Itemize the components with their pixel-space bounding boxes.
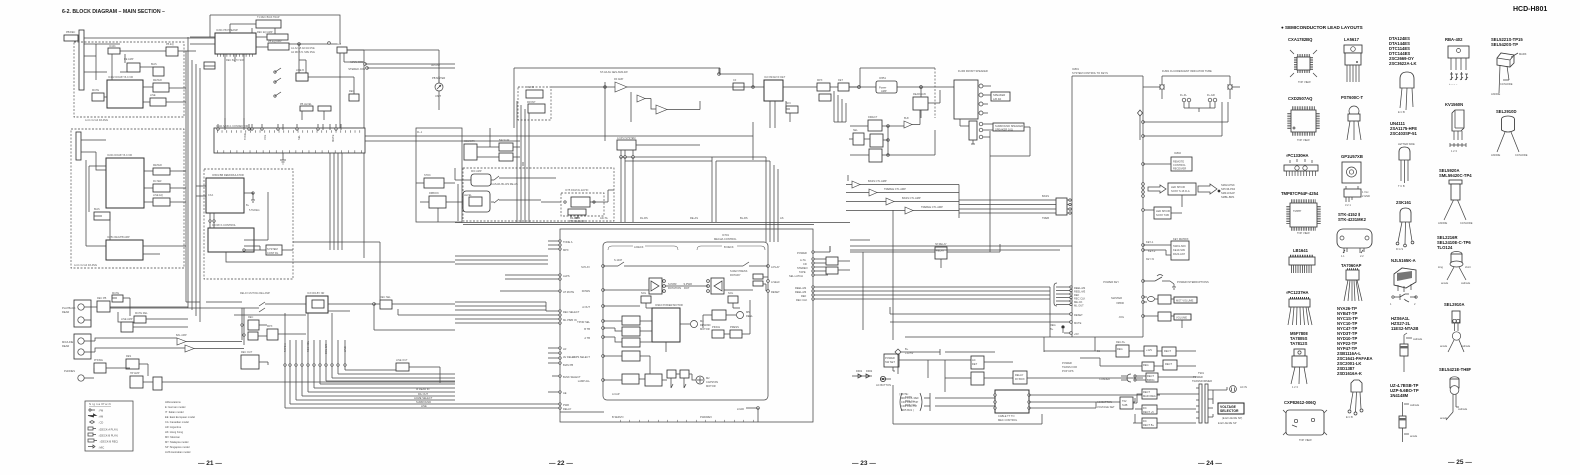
transformer bars (1199, 384, 1202, 423)
svg-text:SONY TAB: SONY TAB (1156, 213, 1169, 217)
svg-text:T C B: T C B (1398, 184, 1405, 188)
sub box 2 (429, 196, 446, 208)
svg-text:DC: DC (1143, 419, 1147, 423)
vertical bus center-left pair (206, 256, 548, 302)
phone amp box (94, 363, 106, 373)
svg-text:IC102 DOLBY B-C NR: IC102 DOLBY B-C NR (108, 76, 133, 79)
IC dolby NR processor deck B (106, 158, 144, 208)
svg-text:: AM: : AM (98, 415, 103, 419)
svg-text:LB1641: LB1641 (1293, 248, 1309, 253)
IC TMP87CP64F QFP package (1288, 201, 1319, 235)
wires fl tube (1143, 87, 1240, 112)
IC uPC1237HA SIP package (1288, 298, 1312, 325)
pins main ctl right (1028, 394, 1030, 396)
svg-text:BIAS: BIAS (151, 63, 157, 66)
svg-text:AC IN: AC IN (1240, 385, 1247, 389)
tape out lines into mech board (455, 302, 546, 323)
det box 2 (819, 94, 831, 101)
motor volume node 1 (1142, 296, 1145, 299)
svg-text:REWIND: REWIND (700, 323, 711, 327)
motor oval (1148, 297, 1155, 302)
led SEL2910A package (1440, 311, 1471, 352)
rec pb amp box (97, 301, 110, 312)
fl grid 2 (1208, 98, 1212, 102)
wires deck B internal (81, 140, 186, 254)
svg-text:RECT: RECT (1165, 362, 1172, 366)
ceramic filter box (733, 83, 744, 90)
svg-text:B+: B+ (905, 347, 909, 351)
svg-text:BUF: BUF (904, 117, 909, 120)
diamond b+ (895, 349, 901, 355)
jack circle phones (78, 375, 84, 381)
node cpu 1 (620, 156, 623, 159)
key matrix box (1171, 241, 1189, 260)
svg-text:ME-CK: ME-CK (1074, 300, 1083, 304)
led arrow left (1148, 185, 1166, 193)
mixer node bus (242, 308, 244, 345)
wires cd section (196, 186, 293, 262)
svg-text:— 22 —: — 22 — (549, 460, 573, 467)
legend row deck b rec (88, 439, 94, 442)
svg-text:A-C1 C2 A4 RA RVE: A-C1 C2 A4 RA RVE (85, 119, 108, 122)
svg-text:ALPS: ALPS (563, 274, 570, 278)
svg-text:A-B: A-B (337, 43, 342, 46)
bias box deck B (94, 212, 110, 220)
svg-text:— 25 —: — 25 — (1448, 459, 1472, 466)
echo dashed box (561, 193, 604, 216)
surround speaker strip (969, 121, 977, 140)
svg-text:LINE B: LINE B (296, 69, 304, 72)
node row line out (284, 364, 286, 366)
node tuner b (718, 73, 721, 76)
sub box 1 (424, 178, 444, 188)
pb eq box (166, 47, 178, 56)
fl tube heater right (1228, 85, 1232, 89)
node echo out (593, 201, 595, 203)
svg-text:MEC CONTROL: MEC CONTROL (998, 418, 1018, 422)
key nodes (1142, 244, 1145, 247)
boxes mid power (1116, 345, 1129, 357)
pb level box L (300, 106, 313, 111)
wires rect col (1133, 394, 1196, 423)
node remote (1142, 163, 1145, 166)
svg-text:TA7060AP: TA7060AP (1341, 263, 1362, 268)
wires lineout descending (259, 362, 560, 408)
node J1 (298, 43, 301, 46)
svg-text:LETTER SIDE: LETTER SIDE (1398, 142, 1415, 146)
led display group nodes (1142, 183, 1145, 186)
svg-text:RY-BOX: RY-BOX (1015, 377, 1025, 381)
IC TO220 regulator package (1291, 349, 1307, 389)
svg-text:RECT +5: RECT +5 (1143, 410, 1154, 414)
svg-text:IC501 BB DEMODULATOR: IC501 BB DEMODULATOR (212, 173, 244, 177)
dashed outline CD board (204, 169, 293, 279)
backup box 2 (499, 153, 513, 161)
svg-text:REC OUT: REC OUT (241, 351, 253, 354)
svg-text:to REAR IN: to REAR IN (416, 387, 430, 391)
svg-text:TA7812S: TA7812S (1290, 341, 1308, 346)
stereo jog node (366, 67, 369, 70)
svg-text:MECHA CONTROL: MECHA CONTROL (714, 237, 737, 241)
pinch roller boxes (712, 330, 724, 338)
bass treble amp triangle 3 (886, 198, 894, 205)
deck right pin A PLAY (767, 265, 770, 268)
IC dolby NR processor deck A (107, 80, 143, 108)
tone sel box (853, 133, 864, 145)
svg-text:RELAY: RELAY (936, 249, 945, 253)
wires servo2 (890, 307, 1070, 333)
node cpu 2 (624, 156, 627, 159)
rec cal box (296, 73, 308, 81)
svg-text:6-2. BLOCK DIAGRAM – MAIN SE: 6-2. BLOCK DIAGRAM – MAIN SECTION – (62, 9, 165, 15)
svg-text:S-TA AS-RL BL-RS RE-AS: S-TA AS-RL BL-RS RE-AS (487, 182, 518, 186)
IC STK power package (1337, 229, 1372, 258)
svg-text:KEY MATRIX: KEY MATRIX (1173, 237, 1189, 241)
svg-text:A CAP: A CAP (612, 392, 620, 396)
svg-text:anode: anode (1440, 416, 1448, 420)
svg-text:T901: T901 (1198, 371, 1204, 375)
fl grid 1 (1182, 98, 1186, 102)
svg-text:T1 REC BIAS TRAP: T1 REC BIAS TRAP (257, 16, 280, 19)
svg-text:cathode: cathode (1461, 344, 1471, 348)
long horizontal bus pair under mic section (455, 223, 850, 225)
svg-text:TONE A: TONE A (563, 240, 573, 244)
svg-text:CATHODE: CATHODE (1515, 153, 1528, 157)
svg-text:CATHODE: CATHODE (1500, 82, 1513, 86)
rect box brace (1146, 373, 1158, 382)
power amp rounded box (876, 81, 897, 93)
IC GP1U57XB module package (1342, 162, 1370, 207)
wire b+ (898, 349, 995, 374)
svg-text:CXA: CXA (208, 194, 213, 197)
svg-text:cathode: cathode (1458, 407, 1468, 411)
svg-text:cathode: cathode (1410, 403, 1420, 407)
svg-text:2SC3622A-LK: 2SC3622A-LK (1389, 61, 1416, 66)
svg-text:MUTE: MUTE (331, 134, 335, 142)
reel motor circle A (691, 321, 698, 328)
svg-text:VOL: VOL (263, 134, 267, 140)
svg-text:FILTER: FILTER (153, 180, 162, 183)
svg-text:IC75 DIGITAL ECHO: IC75 DIGITAL ECHO (565, 189, 588, 192)
remote control receiver box (1171, 157, 1192, 171)
bass treble amp triangle 2 (869, 189, 877, 196)
svg-text:AR :Argentine: AR :Argentine (165, 425, 182, 429)
svg-text:PROCESSOR: PROCESSOR (569, 220, 585, 223)
bridge RBA-402 package (1448, 46, 1469, 86)
svg-text:5.5VREG: 5.5VREG (249, 209, 260, 212)
svg-text:POWER: POWER (1193, 375, 1203, 379)
head connector strip deck B (76, 132, 81, 160)
svg-text:SELECTOR: SELECTOR (1220, 409, 1239, 413)
node cd out1 (209, 220, 211, 222)
dashed board outline deck B (71, 129, 184, 268)
echo delay IC box (571, 197, 590, 207)
curly brace power (1127, 374, 1131, 382)
svg-text:LR: LR (563, 347, 566, 351)
svg-text:REAR: REAR (62, 310, 69, 314)
wires row2 (1080, 358, 1196, 366)
svg-text:REF: REF (801, 294, 807, 298)
svg-text:2.2: 2.2 (1360, 254, 1364, 258)
reverse rotary boxes (753, 274, 763, 279)
rect boxes column bottom (1142, 389, 1157, 399)
svg-text:REEL-M3: REEL-M3 (1074, 290, 1086, 294)
node vol out (858, 86, 861, 89)
svg-text:LAMP ALL: LAMP ALL (578, 379, 591, 383)
phase box 1 (667, 370, 676, 378)
svg-text:NOTE: NOTE (905, 395, 912, 399)
svg-text:STDC: STDC (424, 174, 431, 177)
svg-text:anode: anode (1410, 434, 1418, 438)
tuner output vertical bundle (517, 101, 529, 222)
trans sub box (1120, 397, 1133, 409)
svg-text:STK-4231MK2: STK-4231MK2 (1338, 217, 1367, 222)
svg-text:LINE: LINE (150, 94, 156, 97)
svg-text:PST600C-T: PST600C-T (1341, 95, 1364, 100)
stub wires into left pins (500, 241, 559, 392)
wires deck B motors (603, 356, 696, 388)
A CPU box (617, 140, 636, 150)
svg-text:MAIN REG: MAIN REG (1143, 394, 1156, 398)
IC CXP82612 QFP package (1283, 410, 1327, 442)
svg-text:RE AMP: RE AMP (124, 58, 134, 61)
transistor 2SD1616A package (1346, 380, 1363, 419)
svg-text:: (DECK-B PLAY): : (DECK-B PLAY) (98, 434, 118, 438)
svg-text:Abbreviations: Abbreviations (165, 400, 181, 404)
svg-text:POP UPS: POP UPS (1062, 369, 1074, 373)
IC IF detector (764, 80, 783, 101)
buffer triangle 3 (656, 105, 667, 114)
svg-text:IC801: IC801 (1072, 67, 1079, 71)
svg-text:REEL-M2: REEL-M2 (1074, 286, 1086, 290)
left pin nodes of outer board (559, 240, 561, 242)
wires mixer (110, 304, 374, 349)
svg-text:POWER INTERRUPTIONS: POWER INTERRUPTIONS (1177, 280, 1209, 284)
transistor TO92 DTA package (1398, 72, 1414, 114)
solenoid box B (728, 296, 738, 303)
svg-text:CXD2507AQ: CXD2507AQ (1288, 96, 1313, 101)
node sys a (1142, 121, 1145, 124)
svg-text:SURROUND SPEAKER: SURROUND SPEAKER (995, 124, 1023, 128)
wire long vertical bundle center-left (188, 37, 200, 322)
wires amp (849, 87, 954, 118)
led SEL2216R package (1438, 252, 1471, 286)
det box 1 (817, 83, 830, 91)
svg-text:BAL AMP: BAL AMP (176, 334, 187, 337)
svg-text:BRDG: BRDG (1147, 378, 1155, 382)
svg-text:A2 RD A71 SPE RVE: A2 RD A71 SPE RVE (291, 51, 315, 54)
svg-text:SOL: SOL (641, 291, 647, 295)
capstan motor box (622, 351, 640, 361)
dolby NR inner box (312, 300, 324, 308)
wires motor drive A (603, 321, 690, 352)
outer loop power (880, 367, 1042, 424)
fl tube outline (1162, 76, 1230, 99)
svg-text:MUTE: MUTE (1074, 321, 1082, 325)
svg-text:FRONT: FRONT (527, 101, 536, 104)
ac rel box 1 (971, 356, 984, 369)
switch cue A (613, 262, 630, 266)
wire meter feed (347, 50, 439, 83)
line amp box (121, 322, 133, 332)
svg-text:RECT: RECT (1143, 390, 1150, 394)
svg-text:MUTE REL: MUTE REL (135, 312, 148, 315)
wires routing left (84, 298, 455, 382)
svg-text:IC701: IC701 (722, 233, 729, 237)
svg-text:RECT: RECT (1147, 374, 1154, 378)
svg-text:M2: M2 (706, 376, 710, 380)
wires note to box (924, 393, 995, 411)
svg-text:KV1560N: KV1560N (1445, 102, 1463, 107)
svg-text:SOL: SOL (728, 291, 734, 295)
svg-text:T02: T02 (1122, 399, 1127, 403)
svg-text:JOG: JOG (1119, 315, 1124, 319)
dashed link amp (934, 68, 936, 118)
photo IC NJL5165K package (1390, 268, 1417, 306)
outer board rectangle (560, 229, 813, 422)
svg-text:RESET: RESET (1074, 313, 1083, 317)
power key switch (1143, 277, 1174, 284)
svg-text:BIAS: BIAS (94, 208, 100, 211)
diode 1N4148 package (1399, 402, 1420, 442)
svg-text:RECEIVER: RECEIVER (1173, 167, 1186, 171)
filter box 3 (153, 198, 170, 206)
wires power top (899, 360, 1143, 392)
svg-text:E.EX AE RE SP: E.EX AE RE SP (1218, 421, 1237, 425)
cassette head A box (649, 278, 662, 294)
motor drive boxes deck A (622, 316, 640, 325)
jack circle pb L (78, 304, 84, 310)
svg-text:KEY-2: KEY-2 (1148, 249, 1156, 253)
wires tuner (551, 68, 860, 136)
transistor 2SK161 package (1396, 208, 1414, 251)
svg-text:FL/FR FRONT SPEAKER: FL/FR FRONT SPEAKER (958, 69, 988, 73)
svg-text:HK :Hong Kong: HK :Hong Kong (165, 430, 184, 434)
led SEL2910D package (1491, 116, 1528, 157)
cassette head B box (711, 278, 724, 294)
svg-text:REC SEL: REC SEL (380, 296, 391, 299)
dolby sw box (306, 296, 328, 313)
svg-text:ANODE: ANODE (1491, 92, 1500, 96)
phase box 2 (680, 370, 689, 378)
svg-text:ML OUT: ML OUT (1074, 304, 1084, 308)
wires boxes to right (830, 246, 850, 270)
svg-text:LOAD: LOAD (737, 407, 744, 411)
svg-text:POWER KEY: POWER KEY (1103, 280, 1119, 284)
deck pin DOWN (602, 289, 605, 292)
svg-text:FWD/REV: FWD/REV (700, 415, 712, 419)
svg-text:: CD: : CD (98, 421, 103, 425)
bass treble amp triangle 4 (905, 207, 913, 214)
rear amp box (913, 97, 928, 110)
wires syscon verticals (1139, 116, 1141, 140)
svg-text:SEL5421E-TH8F: SEL5421E-TH8F (1439, 367, 1472, 372)
reset node (1070, 313, 1073, 316)
svg-text:SPEAKER: SPEAKER (993, 93, 1005, 97)
svg-text:RECT: RECT (1164, 349, 1171, 353)
svg-text:CAPSTAN: CAPSTAN (706, 380, 718, 384)
wires system cont cd (244, 246, 293, 250)
svg-text:DET: DET (838, 79, 843, 82)
svg-text:BL-RS: BL-RS (740, 216, 748, 220)
rec mix box 2 (248, 332, 258, 340)
svg-text:TREBLE CTL AMP: TREBLE CTL AMP (921, 205, 943, 209)
svg-text:›PC1237HA: ›PC1237HA (1286, 290, 1309, 295)
svg-text:SEL.LATCH: SEL.LATCH (789, 274, 803, 278)
svg-text:B+: B+ (1050, 327, 1054, 331)
wires jog (1143, 316, 1182, 328)
svg-text:REG B+: REG B+ (1116, 341, 1126, 344)
svg-text:TAPE: TAPE (799, 270, 806, 274)
IC LA5617 TO220-5 package (1344, 45, 1362, 82)
wires relay (850, 210, 1000, 340)
svg-text:+5V: +5V (1074, 332, 1079, 336)
ground power key (1172, 284, 1176, 289)
wires servo (1056, 287, 1070, 305)
svg-text:REC CLK: REC CLK (796, 298, 808, 302)
svg-text:A SELF: A SELF (771, 280, 780, 284)
svg-text:PWR: PWR (563, 403, 569, 407)
svg-text:REG: REG (1050, 323, 1056, 327)
outer wire loop top (210, 15, 340, 44)
rec select box (380, 300, 392, 309)
svg-text:SEL: SEL (853, 129, 858, 132)
svg-text:+13.5V: +13.5V (905, 351, 914, 355)
svg-text:A DECK: A DECK (634, 245, 644, 249)
det box 3 (838, 83, 849, 91)
wires cpu (556, 122, 753, 161)
svg-text:LEVEL: LEVEL (464, 194, 472, 197)
diode pair (852, 374, 872, 378)
svg-text:— 24 —: — 24 — (1198, 460, 1222, 467)
res att box (126, 359, 139, 369)
rec out box (241, 355, 259, 369)
front speaker label box (991, 92, 1010, 101)
jog label box (1174, 314, 1191, 320)
node mix 2 (243, 334, 245, 336)
dot right (1218, 190, 1221, 193)
svg-text:BASS CTL AMP: BASS CTL AMP (868, 179, 887, 183)
right pin column of board (812, 251, 814, 253)
svg-text:TONE: TONE (243, 133, 247, 140)
svg-text:A PLAY: A PLAY (771, 265, 780, 269)
svg-text:RIBBON: RIBBON (429, 192, 439, 195)
mpx filter box (267, 329, 278, 340)
deck pin TPOR (602, 320, 605, 323)
svg-text:AD-TA: AD-TA (600, 216, 608, 220)
filter box 1 (153, 168, 170, 175)
svg-text:PLAYBACK: PLAYBACK (62, 306, 76, 310)
svg-text:SW01-S09: SW01-S09 (1173, 244, 1186, 248)
wire sol (646, 303, 740, 308)
wires deck A internal (84, 44, 196, 102)
sub board outline (416, 128, 462, 222)
IC CXA1782BQ QFP package (1290, 50, 1317, 84)
wires tone bundle (959, 200, 1069, 213)
svg-text:AS: AS (780, 216, 784, 220)
svg-text:IC301 PB PREAMP: IC301 PB PREAMP (216, 29, 238, 32)
svg-text:TRANSFORMER: TRANSFORMER (1192, 379, 1212, 383)
svg-text:+ ~ ~ −: + ~ ~ − (1449, 83, 1458, 86)
svg-text:IT :Italian model: IT :Italian model (165, 410, 184, 414)
svg-text:A-TA: A-TA (800, 258, 806, 262)
svg-text:SURROUND: SURROUND (416, 400, 431, 404)
dashed board outline deck A (74, 42, 184, 117)
deck box left pin S.PLAY (602, 265, 605, 268)
svg-text:AC BUTTON: AC BUTTON (876, 383, 891, 387)
svg-text:A OUT: A OUT (582, 305, 590, 309)
svg-text:— 23 —: — 23 — (852, 460, 876, 467)
